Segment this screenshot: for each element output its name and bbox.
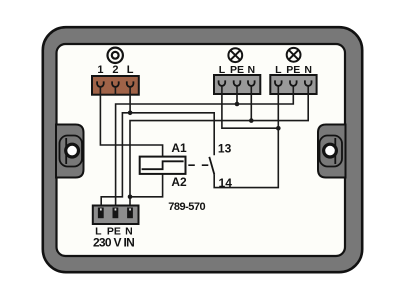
- right mounting screw hole: [324, 144, 337, 157]
- lamp connector 2 clamp N: [305, 80, 312, 86]
- mechanical link (dashed): [188, 164, 208, 166]
- switch connector clamp 2: [112, 81, 119, 87]
- wire: PE branch to lamp connector 1: [236, 86, 238, 104]
- lamp connector 1 clamp L: [219, 80, 226, 85]
- wire: PE bus from supply to lamps: [116, 86, 294, 208]
- label L PE N (supply): [95, 226, 133, 238]
- supply terminal pin L: [98, 208, 104, 219]
- relay coil latching step: [142, 161, 184, 169]
- node L junction: [128, 111, 133, 116]
- right mounting tab: [318, 125, 346, 178]
- left mounting screw hole: [66, 144, 79, 157]
- node N bus junction: [249, 118, 254, 123]
- supply terminal pin N: [127, 208, 133, 219]
- supply terminal pin PE: [113, 208, 119, 219]
- wire: contact 14 to lamp L feed: [214, 128, 278, 187]
- switch connector clamp L: [127, 81, 134, 86]
- svg-text:L: L: [127, 64, 134, 76]
- wire: switch terminal L down to node: [129, 87, 131, 113]
- node PE junction: [235, 102, 240, 107]
- svg-text:230 V IN: 230 V IN: [93, 236, 134, 250]
- svg-text:13: 13: [218, 141, 232, 155]
- label L PE N (lamp connector 2): [275, 64, 312, 76]
- lamp symbol 2: [287, 48, 301, 62]
- wire: relay coil A2 to N node: [130, 174, 163, 197]
- left mounting tab: [56, 125, 84, 178]
- lamp connector 1 (gray): [214, 75, 260, 94]
- wire: N bus to lamps: [130, 86, 308, 197]
- svg-text:789-570: 789-570: [168, 201, 205, 213]
- node N junction at supply: [128, 195, 133, 200]
- wire: L node down to supply L: [101, 113, 130, 208]
- enclosure outer frame: [43, 27, 362, 272]
- push-button symbol: [108, 48, 123, 63]
- node lamp L junction: [276, 126, 281, 131]
- label 1 2 L: [97, 64, 133, 76]
- wire: lamp L feed up to lamp connector 2: [277, 86, 279, 128]
- lamp connector 1 clamp N: [248, 80, 255, 86]
- relay contact blade: [209, 157, 214, 175]
- wire: switch terminal 2 stub: [114, 87, 116, 95]
- svg-text:14: 14: [219, 176, 233, 190]
- lamp connector 1 clamp PE: [234, 80, 241, 86]
- wire: N riser from supply: [129, 197, 131, 208]
- lamp connector 2 (gray): [270, 75, 316, 94]
- lamp symbol 1: [228, 48, 242, 62]
- wire: switch terminal 1 to relay coil A1: [100, 87, 162, 157]
- wire: N branch to lamp connector 1: [250, 86, 252, 121]
- wire: lamp L feed to lamp connector 1: [222, 86, 278, 128]
- switch input connector (brown): [92, 76, 139, 95]
- svg-text:A2: A2: [171, 175, 187, 189]
- relay coil K1: [140, 157, 186, 174]
- svg-text:2: 2: [112, 64, 118, 76]
- wire: L node to contact 13: [130, 113, 214, 155]
- supply connector (dark): [93, 206, 139, 225]
- label L PE N (lamp connector 1): [219, 64, 255, 76]
- enclosure inner opening: [57, 44, 346, 256]
- switch connector clamp 1: [97, 81, 104, 87]
- svg-text:A1: A1: [171, 141, 187, 155]
- lamp connector 2 clamp L: [275, 80, 282, 86]
- svg-text:1: 1: [97, 64, 103, 76]
- lamp connector 2 clamp PE: [290, 80, 297, 85]
